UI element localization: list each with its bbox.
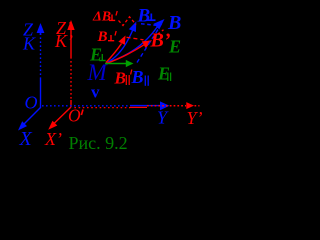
svg-text:K: K	[22, 34, 36, 54]
vector B'-perp (red steep, from M)	[106, 36, 126, 63]
svg-text:O: O	[68, 106, 81, 126]
svg-text:B: B	[137, 5, 151, 26]
svg-text:X: X	[19, 128, 33, 150]
svg-text:Рис. 9.2: Рис. 9.2	[69, 133, 128, 153]
axis Z' (frame K')	[67, 20, 74, 107]
dashed side: B-perp tip to B head (blue)	[141, 24, 156, 25]
label B'-perp	[97, 29, 117, 45]
svg-text:Y’: Y’	[187, 108, 203, 128]
svg-text:B: B	[97, 29, 108, 45]
axis Z (frame K)	[37, 23, 45, 108]
svg-text:B: B	[114, 69, 126, 88]
label E-parallel (green)	[157, 64, 171, 84]
dashed side: B-par tip to B tip (blue)	[137, 22, 163, 63]
label E-perp (green)	[89, 45, 106, 65]
axis Y' (red, dotted/solid/dashed with arrow)	[72, 102, 200, 109]
dashed side: B'-perp tip to B' head (red)	[127, 37, 144, 40]
svg-text:X’: X’	[44, 129, 62, 149]
label delta-B'-perp	[92, 10, 117, 25]
axis X' (red diagonal)	[48, 107, 71, 130]
label B-parallel (blue)	[131, 67, 149, 87]
svg-text:K’: K’	[54, 31, 73, 51]
vector B' (red, from M)	[106, 40, 152, 63]
axis X (blue diagonal)	[18, 108, 41, 131]
label B'-parallel (red)	[114, 69, 132, 88]
dashed segment: B' tip to B tip (red)	[153, 30, 164, 38]
svg-text:B: B	[131, 67, 144, 87]
svg-text:O: O	[25, 93, 38, 113]
vector E-parallel (green horizontal arrow from M)	[105, 60, 134, 67]
label B-perp	[137, 5, 156, 26]
vector B-perp (blue steep, from M)	[107, 22, 137, 63]
leader dashes from delta label (red dashed zigzag)	[119, 17, 137, 26]
svg-text:E: E	[89, 45, 102, 65]
svg-text:E: E	[168, 37, 181, 57]
axis Y (blue, dotted then solid with arrow)	[42, 101, 170, 110]
svg-text:v: v	[91, 83, 100, 102]
vector B (blue, from M up-right)	[106, 19, 165, 63]
svg-text:ΔB: ΔB	[92, 10, 111, 25]
